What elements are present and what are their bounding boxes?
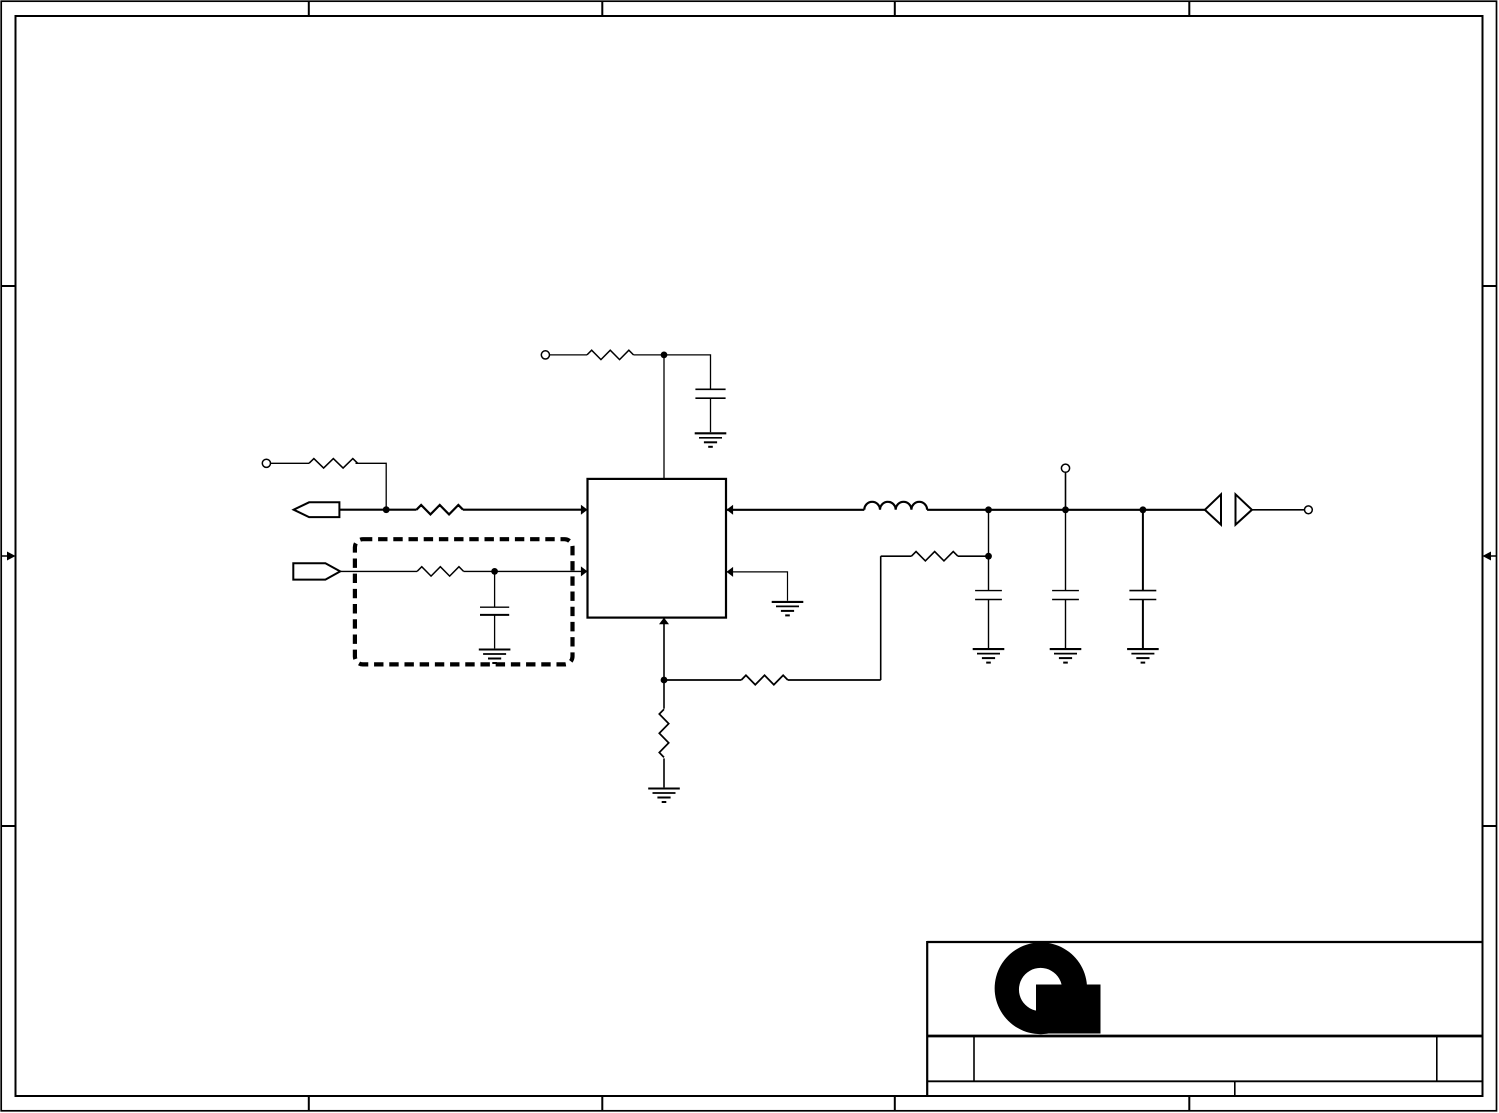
company logo [995,942,1101,1034]
ground below C5 [1127,649,1159,663]
ground below C2 [479,650,511,664]
junction node VCC [661,352,668,359]
zone tick bottom 4 [1188,1096,1190,1111]
wire R5 to node FB [958,555,989,557]
wire node B to C2 [494,571,496,607]
wire node RF1 down to C3 [988,510,990,591]
zone tick bottom 3 [894,1096,896,1111]
junction node A [383,506,390,513]
zone tick right 1 [1483,285,1498,287]
junction node B [491,568,498,575]
dashed option box [355,539,573,664]
ground below C1 [695,433,727,447]
wire T2 to R2 [271,462,310,464]
wire C5 to ground [1142,600,1144,649]
resistor R2 [309,459,358,468]
center marker right [1483,552,1498,561]
wire C3 to ground [988,600,990,649]
wire R6 to feedback vertical [788,679,881,681]
wire T1 to R1 [550,354,588,356]
terminal T1 (VCC input, top) [541,351,549,359]
wire P2 to R4 [340,570,417,572]
zone tick bottom 2 [601,1096,603,1111]
wire node RF3 down to C5 [1142,510,1144,591]
wire R3 to U1 pin (arrow) [463,505,588,515]
inductor L1 [864,502,927,510]
capacitor C2 [480,607,509,615]
title block divider column left [973,1036,975,1081]
wire node C to R6 [664,679,741,681]
resistor R5 [911,552,958,561]
port P2 (input flag, points right) [293,563,340,579]
wire U1 right pin 2 (arrow) to ground [727,567,788,601]
wire node VCC to C1 [664,355,711,389]
wire node VCC down to U1 [663,355,665,479]
resistor R7 [659,709,668,757]
zone tick top 3 [894,1,896,16]
wire R4 to U1 pin (arrow) [464,566,588,576]
zone tick top 1 [308,1,310,16]
zone tick right 2 [1483,825,1498,827]
capacitor C4 [1052,591,1079,600]
wire coupling to T3 [1252,509,1305,511]
wire C4 to ground [1065,600,1067,649]
wire C1 to ground [710,398,712,432]
wire feedback vertical [880,556,882,680]
wire R7 to ground [663,758,665,787]
wire U1 right pin 1 (arrow) to L1 [727,505,865,515]
coupling triangle right [1236,494,1252,524]
zone tick top 4 [1188,1,1190,16]
zone tick left 1 [1,285,16,287]
ground below C3 [973,649,1005,663]
wire U1 bottom pin (arrow) down to node C [659,618,669,680]
center marker left [1,552,16,561]
ground below R7 [648,789,680,803]
wire L1 to antenna coupling [927,509,1205,511]
title block divider bottom row [1234,1081,1236,1096]
resistor R1 [587,350,634,359]
wire node RF2 down to C4 [1065,510,1067,591]
resistor R4 [417,567,464,576]
wire R1 to node VCC [634,354,665,356]
terminal T3 (RF out) [1305,506,1313,514]
ground at U1 pin 2 [772,602,804,616]
wire node C down to R7 [663,680,665,709]
resistor R3 [417,505,464,514]
junction node RF1 [985,506,992,513]
port P1 (output flag, points left) [294,502,340,517]
capacitor C3 [975,591,1002,600]
IC U1 [588,479,727,618]
wire P1 to node A [339,509,416,511]
capacitor C1 [695,389,725,398]
wire C2 to ground [494,615,496,649]
capacitor C5 [1129,591,1156,600]
zone tick left 2 [1,825,16,827]
terminal T4 (top) [1061,464,1069,472]
junction node C [661,677,668,684]
wire T4 down to node RF2 [1065,472,1067,510]
ground below C4 [1050,649,1082,663]
wire feedback top to R5 [881,555,912,557]
wire R2 to node A [356,463,387,509]
resistor R6 [741,675,788,684]
terminal T2 (upper-left) [262,459,270,467]
coupling triangle left [1205,494,1221,524]
junction node RF2 [1062,506,1069,513]
zone tick top 2 [601,1,603,16]
title block divider column right [1436,1036,1438,1081]
title block outline [927,941,1482,1096]
zone tick bottom 1 [308,1096,310,1111]
junction node FB [985,553,992,560]
junction node RF3 [1140,506,1147,513]
